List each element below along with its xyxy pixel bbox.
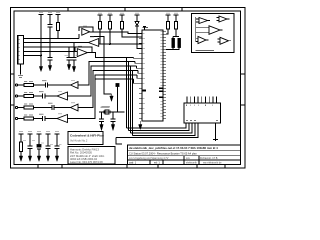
capacitor C row4 — [43, 116, 45, 121]
label R1 — [24, 81, 33, 83]
op-amp U2C triangle — [77, 49, 87, 57]
wire bus extra y79 — [95, 78, 134, 80]
node pad row3 — [15, 106, 17, 108]
label crystal value — [101, 106, 110, 108]
wire connector row5 — [24, 55, 42, 57]
op-amp U3D triangle row4 — [57, 115, 68, 123]
svg-text:Codewheel & HIFI-Plug: Codewheel & HIFI-Plug — [70, 134, 104, 138]
capacitor C row2 — [43, 93, 45, 98]
wire U4A stubs — [196, 19, 210, 22]
resistor R x122 — [120, 22, 123, 30]
power symbol VCC T col B — [48, 15, 53, 25]
label cap values bank — [23, 141, 62, 145]
svg-text:CU Status 03.07.2004 - Reso: CU Status 03.07.2004 - Resonance Booster… — [129, 152, 197, 156]
capacitor C bank c2 — [28, 146, 33, 149]
wire U4B stubs — [217, 18, 230, 21]
wire U2B node down — [104, 37, 112, 94]
label opamp designators — [78, 26, 94, 46]
svg-text:ww elektronik de: ww elektronik de — [203, 161, 222, 164]
label caps x69 x74 — [65, 55, 80, 57]
power symbol VCC T col A — [39, 15, 44, 18]
wire row1 out to bus — [78, 62, 135, 86]
capacitor C row3 — [52, 105, 54, 110]
svg-text:de:elektronik_dev_pcb/files.ne: de:elektronik_dev_pcb/files.net.cl 17.03… — [129, 146, 218, 150]
ground arrow x69 — [67, 65, 70, 71]
node pad row4 — [15, 117, 17, 119]
wire x176 down — [173, 29, 179, 37]
microcontroller IC1 body — [142, 30, 163, 121]
bundle wire b4 — [133, 123, 196, 136]
IC1 pin name bold VCC right — [159, 88, 163, 97]
svg-text:Fichtenstr. 17 B: Fichtenstr. 17 B — [200, 157, 218, 160]
wire x110 down to junction — [109, 29, 111, 44]
ground symbol under connector — [18, 75, 23, 77]
resistor R row1 — [24, 83, 34, 86]
wire U4E stubs — [218, 39, 232, 42]
power symbol VCC T x168 — [166, 15, 171, 22]
wire x137 down then right to IC1 — [137, 26, 142, 49]
wire row3 c — [54, 107, 70, 109]
ground arrow bank c5 — [55, 156, 58, 161]
wire connector row4 — [24, 50, 78, 52]
op-amp U3C triangle row3 — [71, 104, 79, 111]
capacitor C bank c4 — [46, 146, 51, 149]
capacitor C row1 — [45, 82, 47, 87]
wire x100 down — [100, 29, 142, 44]
resistor R x176 — [174, 22, 177, 30]
wire row2 out to bus — [68, 66, 137, 96]
crystal Q1 body — [105, 110, 109, 114]
note box 1 — [68, 132, 103, 145]
wire row1 — [18, 84, 24, 86]
diode D1 x137 — [135, 21, 139, 26]
wire U4D stubs — [196, 38, 209, 41]
polarized capacitor C bank c3 — [37, 144, 41, 147]
op-amp U4D triangle — [198, 37, 206, 44]
feedback wire U2A — [79, 27, 93, 39]
bus vertical v3 — [130, 66, 132, 133]
feedback wire U2C — [75, 47, 92, 53]
bundle wire b2 — [129, 123, 190, 131]
wire bank c3 — [38, 149, 40, 156]
decoupling bank supply T c2 — [28, 134, 33, 146]
wire row3 — [18, 107, 24, 109]
ground bar IC2 — [213, 138, 218, 140]
power symbol VCC T x110 — [108, 15, 113, 22]
electrolytic cap C at x74 — [72, 43, 77, 67]
note box 2 text — [70, 147, 105, 164]
wire bank c1 — [20, 152, 22, 157]
wire connector row2 — [24, 42, 89, 44]
bundle wire b3 — [131, 123, 193, 133]
frame tick marks side bands — [11, 74, 245, 105]
label R2 — [24, 92, 33, 94]
title block divider cols — [150, 156, 199, 165]
capacitor C bank c5 — [55, 146, 60, 149]
schematic small value labels (drawn as marks) — [19, 13, 178, 145]
wire stub bottom left — [116, 138, 122, 145]
electrolytic cap C at x69 — [67, 47, 72, 65]
wire U2B output left — [77, 42, 89, 44]
ground arrow bank c1 — [19, 156, 22, 161]
frame tick marks bottom band — [38, 165, 225, 168]
wire U2A output to IC1 — [93, 32, 142, 34]
ground arrow under IC1 — [139, 121, 142, 130]
electrolytic cap C x173 — [172, 37, 174, 39]
load capacitor C x113 — [111, 112, 116, 125]
spare box caption — [196, 50, 214, 52]
label C3 — [48, 102, 53, 104]
bus vertical v1 — [126, 58, 128, 129]
crystal Q1 label — [102, 105, 111, 107]
op-amp U2A triangle — [82, 28, 90, 35]
svg-text:Laser No. 643 470 0674 08: Laser No. 643 470 0674 08 — [70, 160, 103, 164]
ground arrow bank c2 — [28, 156, 31, 161]
resistor R row3 — [24, 106, 34, 109]
junction dot row5 colA — [40, 55, 42, 57]
IC1 ref label — [142, 27, 148, 29]
spare gates box U4 — [192, 14, 235, 53]
bus vertical v4 — [132, 71, 134, 136]
wire row4 b — [34, 118, 43, 120]
resistor R row2 — [24, 94, 34, 97]
wire U4C stubs — [196, 28, 223, 33]
ground arrow x111.5 — [110, 94, 113, 101]
wire D2 down to crystal net — [116, 87, 118, 113]
svg-text:Vol-Knob No.2: Vol-Knob No.2 — [70, 139, 88, 143]
title block text rows — [129, 146, 222, 164]
ground arrow bank c3 — [37, 156, 40, 161]
wire row3 b — [34, 107, 52, 109]
wire x122 down then right to IC1 — [122, 29, 142, 37]
note box 2 — [68, 147, 115, 164]
wire row2 b — [34, 95, 43, 97]
op-amp U3A triangle row1 — [71, 82, 79, 89]
IC1 pin name marks right — [160, 31, 162, 116]
IC1 top pin stub — [143, 27, 146, 30]
label VCC names above T symbols — [39, 12, 178, 15]
node pad row2 — [15, 95, 17, 97]
capacitor C top col B — [48, 25, 53, 28]
frame inner border — [14, 11, 241, 165]
bus corner stubs into IC1 — [134, 58, 142, 84]
wire col C down — [57, 31, 59, 39]
IC2 inner labels — [186, 120, 218, 122]
wire row1 b — [34, 84, 46, 86]
power symbol VCC T x137 — [135, 15, 140, 21]
label VCC names above bank T symbols — [19, 131, 59, 133]
decoupling bank supply T c3 — [37, 134, 42, 144]
IC2 top pins — [187, 97, 217, 104]
bus vertical v2 — [128, 62, 130, 131]
ground arrow x101.5 — [100, 125, 103, 131]
IC2 body — [184, 103, 221, 123]
op-amp U3B triangle row2 — [57, 92, 68, 100]
node pad row1 — [15, 84, 17, 86]
decoupling bank supply T c1 — [19, 134, 24, 142]
IC2 pin name marks — [187, 105, 213, 107]
connector X1 pin marks — [19, 39, 21, 59]
feedback wire U2B — [90, 37, 104, 44]
wire connector row1 — [24, 38, 80, 40]
power symbol VCC T x176 — [174, 15, 179, 22]
wire connector row3 — [24, 46, 78, 48]
ground arrow bank c4 — [46, 156, 49, 161]
load capacitor C x101.5 — [99, 112, 104, 125]
frame outer border — [11, 8, 245, 168]
wire row2 c — [45, 95, 57, 97]
label C4 — [39, 113, 44, 115]
svg-text:xxx Umgebung und Spannung 4: xxx Umgebung und Spannung 4,7V — [129, 157, 169, 160]
op-amp U4E triangle — [220, 37, 229, 44]
wire bank c4 — [47, 149, 49, 156]
frame tick marks top band — [68, 8, 182, 11]
IC1 left pins — [139, 33, 142, 118]
crystal Q1 side plates — [104, 111, 110, 114]
wire row1 c — [48, 84, 71, 86]
op-amp U2B triangle — [89, 39, 99, 47]
label C1 — [42, 80, 47, 82]
label row triangles — [58, 81, 75, 114]
label R3 — [24, 103, 33, 105]
note box 1 text — [70, 134, 104, 143]
decoupling bank supply T c5 — [55, 134, 60, 146]
power symbol VCC T x100 — [98, 15, 103, 22]
resistor R col C — [56, 23, 59, 31]
wire x168 to pin — [166, 29, 168, 34]
resistor R x110 — [108, 22, 111, 30]
svg-text:cad: 1: cad: 1 — [129, 161, 137, 165]
wire col B mid — [49, 27, 51, 57]
ground arrow x74 — [72, 67, 75, 73]
junction dot x110 y44 — [109, 43, 111, 45]
title block divider rows — [127, 151, 240, 160]
op-amp U4B triangle — [219, 16, 227, 22]
wire col B to ground — [49, 60, 51, 66]
ground arrow under col A — [40, 64, 42, 67]
wire col A down — [40, 17, 42, 64]
title block outline — [127, 145, 240, 165]
wire row2 — [18, 95, 24, 97]
resistor R x168 — [166, 22, 169, 30]
label C2 — [39, 91, 44, 93]
wire bank c5 — [56, 149, 58, 156]
diode D2 on bus — [116, 83, 120, 86]
wire row4 out to bus — [68, 75, 138, 119]
ground arrow x113 — [111, 125, 114, 131]
wire row4 — [18, 118, 24, 120]
wire U2C output to bus — [92, 53, 134, 58]
IC1 pin name bold GND left — [143, 90, 146, 92]
wire connector bottom to ground — [20, 64, 22, 75]
label R4 — [24, 114, 33, 116]
power symbol VCC T x122 — [120, 15, 125, 22]
electrolytic cap C x179 — [178, 38, 181, 48]
resistor R x100 — [98, 22, 101, 30]
decoupling bank supply T c4 — [46, 134, 51, 146]
power symbol VCC T col C — [56, 15, 61, 23]
bundle wire b5 — [116, 123, 198, 138]
wire bank c2 — [29, 149, 31, 156]
connector X1 body — [18, 36, 24, 64]
resistor R bank c1 — [19, 142, 22, 152]
bundle wire b1 — [127, 123, 187, 128]
resistor R row4 — [24, 117, 34, 120]
IC1 pin name marks left — [143, 33, 145, 113]
svg-text:elektronik: elektronik — [186, 161, 197, 164]
svg-text:ed: 1: ed: 1 — [154, 161, 160, 165]
ground arrow under col B — [48, 66, 51, 71]
wire row4 c — [45, 118, 57, 120]
spare bus vertical — [195, 17, 197, 42]
wire row3 out to bus — [78, 71, 138, 108]
wire IC2 gnd — [214, 123, 216, 141]
IC1 right pins — [163, 31, 166, 118]
wire caps to IC1 pin — [166, 48, 179, 50]
wire crystal net — [99, 111, 125, 113]
capacitor C lower col B — [48, 58, 53, 61]
op-amp U4A triangle — [199, 18, 208, 24]
op-amp U4C triangle — [209, 26, 220, 35]
